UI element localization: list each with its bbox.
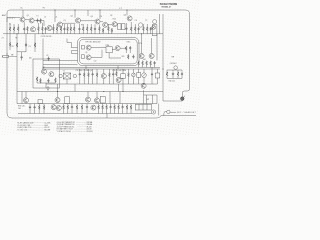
crossed circle M1 <box>152 26 156 30</box>
pin circle <box>59 74 62 77</box>
wire feed 2 <box>43 63 78 65</box>
svg-text:MILLER: MILLER <box>44 130 51 132</box>
top row tiny labels <box>9 8 147 27</box>
battery BT1 <box>135 104 151 110</box>
resistor R41 <box>88 69 90 84</box>
transistor Q10 <box>47 26 52 31</box>
resistor R58 <box>106 104 108 114</box>
transistor Q26 <box>24 92 29 104</box>
resistor R39 <box>83 69 85 84</box>
transistor Q17 <box>49 72 54 77</box>
svg-text:R5: R5 <box>12 46 14 48</box>
relay box K1 <box>38 100 42 104</box>
resistor R54 <box>76 104 78 114</box>
capacitor C8 <box>138 27 140 34</box>
resistor R26 <box>34 43 36 48</box>
svg-text:R40 C22: R40 C22 <box>169 80 175 82</box>
wire bottom rail <box>12 116 196 119</box>
wire inside <box>91 48 130 58</box>
svg-text:T3 T4: T3 T4 <box>138 43 142 45</box>
transistor Q19 <box>141 83 146 88</box>
svg-text:ANT: ANT <box>2 14 7 17</box>
svg-text:R20: R20 <box>122 56 125 58</box>
resistor R28 <box>125 46 127 51</box>
resistor R31 <box>142 61 144 68</box>
wire <box>18 104 159 118</box>
capacitor C1 <box>36 19 38 23</box>
transformer T8 <box>100 96 105 103</box>
junction dots <box>16 9 163 92</box>
transistor Q8 <box>127 16 132 21</box>
capacitor C21 <box>112 69 114 84</box>
wire vertical x17 <box>16 34 18 92</box>
svg-text:Y1: Y1 <box>63 70 65 72</box>
small rect P2 <box>81 55 84 59</box>
svg-text:C6: C6 <box>100 16 102 18</box>
resistor R61 <box>126 104 128 114</box>
jack J1 <box>152 110 156 114</box>
wire x163 vertical <box>162 34 164 84</box>
resistor R3 <box>13 24 15 34</box>
svg-text:SW: SW <box>146 99 149 101</box>
resistor R56 <box>98 104 100 114</box>
capacitor C6 <box>94 24 96 34</box>
IF transformer T5 <box>121 69 125 84</box>
resistor R27 box style <box>2 53 17 58</box>
svg-text:C31 R44 C33 R46 Q6: C31 R44 C33 R46 Q6 <box>75 70 92 72</box>
capacitor C26 <box>71 104 73 114</box>
wire verticals right <box>144 90 157 103</box>
resistor R15 <box>86 24 88 34</box>
capacitor C30 <box>21 52 23 60</box>
wire mid rail B <box>43 68 160 70</box>
resistor R53 <box>67 104 69 114</box>
capacitor C25 <box>34 104 36 114</box>
capacitor C11 <box>25 43 27 47</box>
transistor Q7 <box>112 22 117 27</box>
resistor R35 <box>177 71 179 76</box>
svg-text:C8: C8 <box>110 15 112 17</box>
crystal lead <box>66 79 68 84</box>
pin circle <box>73 74 76 77</box>
resistor R63 <box>9 34 11 50</box>
small box T9 <box>137 69 141 84</box>
earpiece feed wire <box>163 84 182 101</box>
resistor R52 <box>63 104 65 114</box>
resistor R7 <box>42 23 44 34</box>
sub-chassis box <box>33 59 59 88</box>
svg-text:10-470K: 10-470K <box>44 122 51 124</box>
electrolytic C9 <box>138 23 142 27</box>
wire vertical x26 <box>25 34 27 52</box>
wire under box <box>43 66 160 68</box>
resistor R11 <box>67 24 69 34</box>
resistor R5 <box>27 26 29 34</box>
transistor Q16 <box>42 69 47 74</box>
transistor Q14 <box>139 54 144 59</box>
svg-text:C3: C3 <box>28 46 30 48</box>
capacitor C13 <box>129 46 131 50</box>
svg-text:T1: T1 <box>36 15 38 17</box>
resistor R9 <box>56 24 58 34</box>
resistor R23 <box>143 24 145 34</box>
resistor R12 <box>70 24 72 34</box>
transistor Q4 <box>76 18 81 23</box>
resistor R47 <box>127 69 129 84</box>
legend right row1 <box>57 121 93 124</box>
svg-text:R12: R12 <box>113 19 116 21</box>
svg-text:CR-23/U: CR-23/U <box>86 131 93 133</box>
resistor R51 <box>43 104 45 114</box>
transistor Q20 <box>55 98 60 103</box>
resistor R45 <box>116 69 118 76</box>
transistor Q22 <box>95 98 100 103</box>
resistor R24 <box>146 24 148 34</box>
capacitor C28 <box>110 104 112 114</box>
svg-text:L2: L2 <box>44 16 46 18</box>
svg-text:Q3: Q3 <box>90 16 92 18</box>
capacitor C16 <box>172 72 174 76</box>
wire <box>23 10 163 34</box>
resistor R21 <box>130 22 132 34</box>
svg-text:C2: C2 <box>46 55 48 57</box>
ground G1 <box>46 86 50 90</box>
svg-text:XTAL: XTAL <box>105 44 109 47</box>
resistor R19 <box>108 24 110 34</box>
resistor R37 <box>40 78 42 83</box>
wire stubs to bus C <box>58 84 124 92</box>
resistor R33 <box>150 61 152 68</box>
svg-text:600: 600 <box>29 58 32 60</box>
capacitor C19 <box>79 69 81 84</box>
transistor Q18 <box>101 69 106 84</box>
resistor R16 <box>90 24 92 34</box>
capacitor C5 <box>78 24 80 34</box>
wire feed 1 <box>43 60 78 62</box>
capacitor C20 <box>92 69 94 84</box>
transistor Q11 <box>86 45 91 50</box>
wire ground rail A <box>3 33 163 35</box>
transformer T2 can <box>152 20 157 36</box>
resistor R55 <box>81 104 83 114</box>
hanging resistor/cap row to ground rail A <box>9 22 152 34</box>
svg-text:C4 R9 C6 R11: C4 R9 C6 R11 <box>41 36 52 38</box>
wire <box>167 70 182 71</box>
module outer box <box>78 38 140 66</box>
transistor Q12 <box>86 55 91 60</box>
resistor R43 <box>109 69 111 84</box>
svg-text:B+: B+ <box>21 8 23 10</box>
transistor Q5 <box>95 19 100 24</box>
resistor R13 <box>73 24 75 34</box>
svg-text:T2: T2 <box>145 20 147 22</box>
svg-text:RF OSC MODULE: RF OSC MODULE <box>86 42 102 44</box>
resistor R8 <box>53 24 55 34</box>
svg-text:C41: C41 <box>18 108 21 110</box>
capacitor C10 <box>150 27 152 34</box>
transistor Q3 <box>58 22 63 27</box>
transistor Q1 <box>20 17 25 22</box>
capacitor C4 <box>63 24 65 34</box>
IF box T1a <box>118 24 121 30</box>
wire low rail C <box>17 91 163 93</box>
svg-text:L3: L3 <box>55 17 57 19</box>
svg-text:T1 OSC COIL: T1 OSC COIL <box>17 130 27 132</box>
resistor R10 <box>60 26 62 34</box>
legend right row4 <box>57 128 93 131</box>
resistor R20 <box>111 28 113 34</box>
module inner box <box>79 39 137 64</box>
capacitor C18 <box>47 79 49 83</box>
trimmer TC1 <box>132 69 136 84</box>
svg-text:400: 400 <box>143 59 146 61</box>
capacitor C12 <box>46 55 50 61</box>
svg-text:Q5: Q5 <box>85 52 87 54</box>
IF box T1b <box>122 24 125 30</box>
neon lamp NE1 <box>174 66 178 70</box>
resistor R36 <box>36 77 38 82</box>
wire link mid-left <box>17 51 26 53</box>
svg-text:C1-C9 DISC CER: C1-C9 DISC CER <box>17 125 31 127</box>
capacitor C27 <box>86 104 88 114</box>
resistor R29 <box>127 54 129 59</box>
resistor R6 <box>38 23 40 34</box>
capacitor C3 <box>45 27 47 34</box>
small box T6 <box>148 69 160 84</box>
transistor Q23 <box>51 105 56 110</box>
resistor R59 <box>114 104 116 114</box>
legend left row4 <box>17 130 51 132</box>
wire top B+ bus <box>10 10 190 97</box>
svg-text:R1: R1 <box>9 23 11 25</box>
svg-text:08-123: 08-123 <box>86 126 91 128</box>
svg-text:C35 T5 R48 TRIM: C35 T5 R48 TRIM <box>112 70 126 72</box>
small rect P1 <box>81 45 84 49</box>
resistor R25 <box>16 43 18 48</box>
resistor R34 <box>166 71 168 76</box>
wire bend to box top <box>67 39 78 54</box>
resistor R42 <box>96 69 98 84</box>
earpiece SPK <box>181 96 185 101</box>
resistor R57 <box>102 104 104 114</box>
crystal Y1 <box>63 73 71 79</box>
svg-text:C12: C12 <box>94 61 97 63</box>
wire <box>142 34 157 61</box>
resistor R4 <box>17 24 19 34</box>
transistor Q24 <box>56 106 61 111</box>
svg-text:C9: C9 <box>135 20 137 22</box>
legend left row1 <box>17 121 51 124</box>
resistor R62 <box>130 104 132 114</box>
resistor R38 <box>55 78 57 83</box>
trimmer TC2 <box>137 69 148 84</box>
capacitor C24 <box>29 104 31 114</box>
wire links top row <box>63 21 118 25</box>
cord curve <box>164 110 176 115</box>
transistor Q15 <box>149 54 154 59</box>
capacitor C23 <box>151 67 153 84</box>
resistor R2 <box>9 24 11 34</box>
legend left row2 <box>17 125 49 127</box>
wire <box>7 18 29 23</box>
capacitor C14 <box>132 55 134 59</box>
svg-text:C5: C5 <box>63 20 65 22</box>
wire vertical x43 <box>42 39 44 70</box>
capacitor C2 <box>23 22 25 34</box>
wire bottom <box>167 76 182 79</box>
transistor Q2 <box>29 18 34 23</box>
resistor R14 <box>82 24 84 34</box>
wire vertical x35 <box>34 34 36 52</box>
resistor R60 <box>118 104 120 114</box>
legend right row2 <box>57 123 93 126</box>
capacitor C17 <box>181 72 183 76</box>
resistor R18 <box>102 28 104 34</box>
transistor Q6 <box>103 22 108 27</box>
resistor R22 <box>134 24 136 34</box>
svg-text:R7: R7 <box>81 25 83 27</box>
wire <box>17 92 157 104</box>
svg-text:MODEL 27: MODEL 27 <box>162 6 172 8</box>
transistor Q25 <box>91 105 96 110</box>
resistor R32 <box>146 61 148 68</box>
wire left rail <box>7 10 12 118</box>
wire <box>37 82 55 88</box>
svg-text:MIC / HANDSET: MIC / HANDSET <box>177 111 196 114</box>
legend right row5 <box>57 130 94 133</box>
resistor R1 <box>40 19 42 24</box>
resistor R17 <box>99 25 101 34</box>
svg-text:OSC: OSC <box>126 42 131 44</box>
legend right row3 <box>57 125 92 128</box>
transistor Q13 <box>115 46 120 51</box>
svg-text:AF: AF <box>43 66 45 69</box>
capacitor C15 <box>154 61 156 67</box>
transistor Q21 <box>86 97 91 102</box>
svg-text:Q1: Q1 <box>27 15 29 17</box>
resistor R49 <box>38 104 40 114</box>
svg-text:Q4: Q4 <box>124 15 126 17</box>
transistor Q9 <box>31 27 36 32</box>
capacitor C7 <box>125 23 127 34</box>
svg-text:27: 27 <box>2 37 4 39</box>
svg-text:455 KC: 455 KC <box>44 127 50 129</box>
transistor Q27 <box>116 78 123 92</box>
resistor R30 <box>138 61 140 68</box>
legend left row3 <box>17 126 50 129</box>
wire <box>34 21 44 27</box>
svg-text:Q2: Q2 <box>70 16 72 18</box>
wire hbar <box>46 83 137 85</box>
inductor L1 <box>7 17 14 18</box>
transformer T7 <box>65 97 70 104</box>
crystal box X1 <box>105 44 112 53</box>
capacitor C29 <box>122 104 124 114</box>
box bottom pin stubs <box>86 66 118 69</box>
